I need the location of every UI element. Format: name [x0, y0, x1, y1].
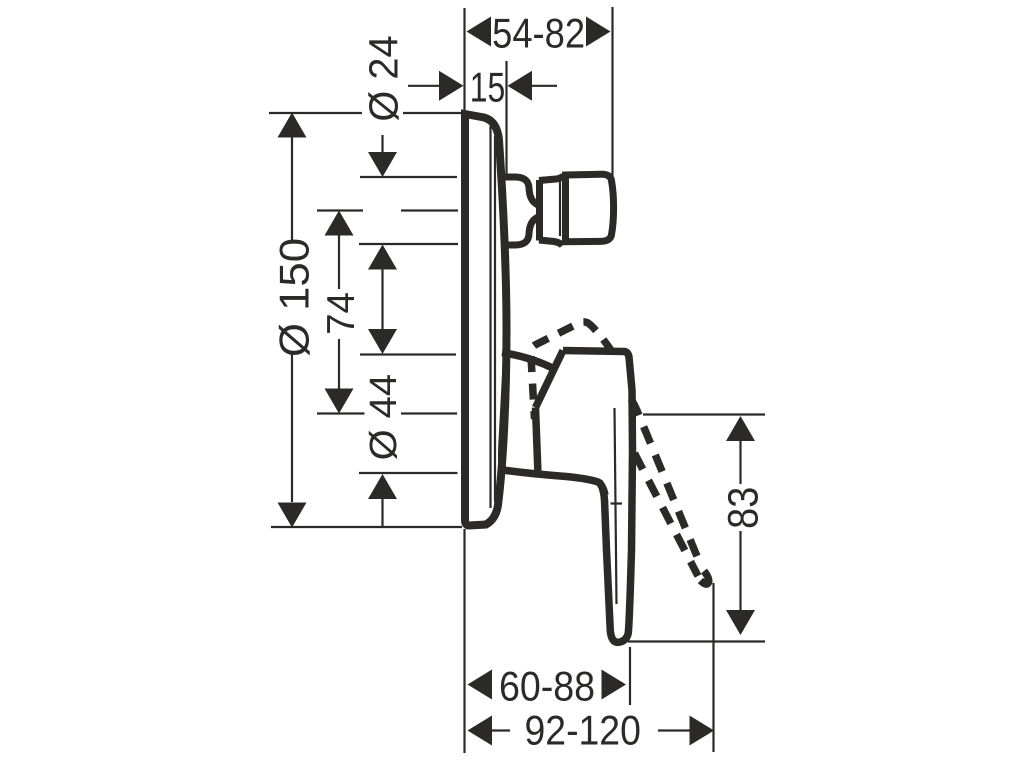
escutcheon plate outline	[465, 114, 507, 526]
dimension line 74	[338, 234, 340, 390]
arrow 92-120 left	[468, 716, 493, 746]
arrow 60-88 right	[602, 670, 627, 700]
extension line left of 54-82 top	[463, 8, 465, 113]
svg-text:92-120: 92-120	[525, 708, 641, 754]
spout stub bevel line	[559, 181, 561, 236]
plate inner contour line 2	[494, 136, 496, 502]
svg-text:54-82: 54-82	[492, 10, 585, 57]
arrow 15 left (points right)	[439, 71, 464, 101]
arrow 74 up	[325, 211, 354, 236]
handle body and lever	[563, 351, 633, 643]
arrow O44 top (points down)	[368, 329, 397, 354]
handle left edge	[536, 408, 539, 475]
arrow 83 up	[726, 416, 755, 441]
svg-text:Ø 44: Ø 44	[363, 374, 405, 460]
handle sleeve bottom curve	[499, 470, 605, 496]
extension line stub bottom	[359, 243, 458, 245]
svg-text:74: 74	[320, 292, 363, 335]
arrow O150 up	[278, 113, 307, 138]
extension line 54-82 right	[611, 7, 613, 176]
extension line O150 bottom / plate bottom	[271, 526, 462, 528]
dimension line 83	[739, 440, 741, 611]
handle sleeve top curve	[502, 353, 554, 369]
dashed lever tip	[701, 571, 709, 584]
svg-text:Ø 150: Ø 150	[271, 238, 318, 357]
dimension line O150	[291, 137, 293, 502]
extension line 92-120 right from dashed lever tip	[712, 583, 714, 752]
extension line handle bottom	[359, 472, 458, 474]
svg-text:83: 83	[718, 487, 767, 529]
svg-text:Ø 24: Ø 24	[360, 35, 407, 121]
arrow 54-82 left	[467, 17, 492, 47]
dimension line O24-O44 chain	[381, 135, 383, 527]
handle chamfer diagonal	[536, 351, 564, 408]
dimension tails 15	[408, 85, 557, 87]
dimension tails 92-120	[491, 729, 690, 731]
dashed lever inner edge	[632, 448, 699, 577]
extension line stub top	[360, 176, 457, 178]
arrow O44 bottom (points up)	[368, 474, 397, 499]
extension line stub axis	[317, 209, 458, 211]
extension line O150 top	[269, 112, 461, 114]
svg-text:15: 15	[470, 63, 506, 110]
sleeve hidden cone edge	[499, 361, 504, 468]
dashed lever outer edge	[631, 399, 701, 566]
extension line handle axis	[317, 412, 457, 414]
arrow O150 down	[278, 503, 307, 528]
extension line below plate (60-88/92-120 left)	[463, 529, 465, 753]
arrow 83 down	[726, 610, 755, 635]
extension line 83 bottom	[628, 640, 765, 642]
arrow O24 top (points down)	[368, 152, 397, 177]
extension line 60-88 right from lever tip	[629, 647, 631, 705]
extension line 83 top	[643, 413, 765, 415]
extension line handle top	[360, 353, 456, 355]
arrow 60-88 left	[468, 670, 493, 700]
arrow 74 down	[325, 389, 354, 414]
arrow 54-82 right	[586, 17, 611, 47]
plate inner contour line 1	[489, 126, 491, 508]
arrow 92-120 right	[690, 716, 715, 746]
svg-text:60-88: 60-88	[499, 663, 595, 709]
arrow 15 right (points left)	[508, 71, 533, 101]
spout stub end cylinder	[566, 174, 614, 241]
arrow O24 bottom (points up)	[368, 245, 397, 270]
spout stub collar	[502, 177, 540, 245]
extension line 15 right	[505, 61, 507, 176]
lever inner contour	[611, 408, 623, 604]
spout stub middle cylinder	[539, 176, 564, 246]
dashed handle top outline and left edge	[531, 322, 613, 419]
